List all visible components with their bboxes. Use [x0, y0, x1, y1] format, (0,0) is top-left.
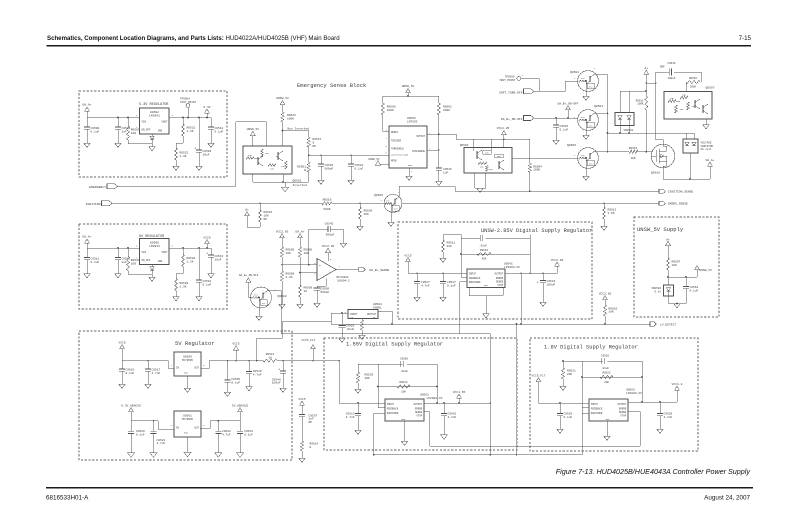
svg-text:Emergency Sense Block: Emergency Sense Block	[297, 82, 367, 89]
capacitor C0524	[348, 155, 364, 180]
ground U0505	[406, 168, 413, 180]
capacitor C0525	[436, 150, 452, 181]
ground C0519	[339, 338, 346, 342]
capacitor C0516 branch	[646, 69, 701, 84]
ground R0533	[355, 389, 362, 393]
svg-text:9.3V_ABACUS: 9.3V_ABACUS	[121, 404, 141, 407]
ground R0512	[601, 226, 608, 230]
capacitor C0511	[84, 248, 100, 274]
capacitor C0505	[314, 279, 330, 304]
ground C0505	[314, 303, 321, 307]
1.55V regulator title	[346, 342, 443, 348]
svg-text:4.7uF: 4.7uF	[346, 416, 355, 419]
power 9.3V_ABACUS	[121, 404, 141, 421]
1.8V regulator title	[544, 345, 638, 351]
svg-text:0.1uF: 0.1uF	[91, 130, 100, 133]
ground R0522	[173, 166, 180, 170]
svg-text:100: 100	[131, 263, 137, 266]
resistor R0513	[263, 353, 277, 362]
ground C0513	[208, 274, 215, 278]
transistor Q0505	[567, 144, 598, 168]
svg-text:VCC2.85: VCC2.85	[322, 245, 335, 248]
capacitor C0528	[657, 402, 673, 429]
svg-text:1.8V Digital Supply Regulator: 1.8V Digital Supply Regulator	[544, 345, 638, 351]
svg-text:20K: 20K	[365, 377, 371, 380]
junction	[308, 154, 310, 156]
power VCC5 (5V reg)	[232, 343, 239, 361]
svg-text:VCC2.85: VCC2.85	[599, 292, 612, 295]
ground C0529	[557, 429, 564, 433]
ground C0511	[84, 274, 91, 278]
wire Q0504 emitter	[583, 129, 590, 139]
capacitor C0523	[237, 421, 253, 453]
resistor R0503	[126, 118, 139, 144]
svg-text:10K: 10K	[682, 94, 687, 97]
svg-text:1.5K: 1.5K	[608, 212, 615, 215]
svg-text:10uF: 10uF	[215, 258, 222, 261]
svg-text:10K: 10K	[265, 152, 270, 155]
resistor R0526	[126, 248, 139, 274]
svg-text:THRESHOLD: THRESHOLD	[391, 148, 404, 151]
output port LV_DETECT	[650, 322, 676, 326]
transistor array Q0501	[243, 146, 292, 174]
wire rail VOUT 9V	[169, 247, 211, 249]
svg-text:MC33202: MC33202	[337, 276, 349, 279]
svg-text:VCC1.55: VCC1.55	[453, 391, 466, 394]
svg-text:LP2986-XX: LP2986-XX	[427, 397, 443, 400]
svg-text:Schematics, Component Location: Schematics, Component Location Diagrams,…	[47, 35, 340, 42]
capacitor C0513b	[346, 403, 361, 430]
capacitor C0526	[601, 354, 609, 370]
capacitor C0517b	[145, 361, 161, 384]
svg-text:0.1uF: 0.1uF	[690, 290, 699, 293]
svg-text:GND: GND	[158, 260, 163, 263]
wire output drop	[520, 273, 522, 324]
wire Q0502 emitter	[583, 90, 590, 100]
svg-text:DA_B+_ON-OFF: DA_B+_ON-OFF	[239, 274, 259, 277]
svg-text:LV_DETECT: LV_DETECT	[660, 323, 676, 326]
capacitor C0501	[115, 118, 131, 144]
capacitor C0512	[115, 248, 131, 274]
svg-text:560pF: 560pF	[325, 167, 334, 170]
ground C0517	[440, 297, 447, 301]
test point TP0500	[499, 74, 539, 92]
junction	[282, 130, 284, 132]
wire IGNITION net	[112, 202, 322, 204]
capacitor C0514	[208, 118, 224, 144]
svg-text:UNSW_5V: UNSW_5V	[276, 97, 289, 100]
svg-text:B: B	[304, 169, 306, 172]
wire drain rail	[663, 166, 710, 180]
svg-text:DISCHARGE: DISCHARGE	[412, 150, 425, 153]
svg-text:UNSW_5V: UNSW_5V	[700, 269, 713, 272]
svg-text:10K: 10K	[270, 168, 275, 171]
junction	[206, 247, 208, 249]
svg-text:UNSW_5V: UNSW_5V	[247, 128, 260, 131]
svg-text:CONTRLVOLTAGE: CONTRLVOLTAGE	[391, 154, 409, 157]
resistor R0524	[258, 202, 272, 227]
svg-text:0.1uF: 0.1uF	[355, 167, 364, 170]
svg-text:10K: 10K	[672, 264, 678, 267]
svg-text:5.1V: 5.1V	[655, 291, 662, 294]
svg-text:10K: 10K	[401, 390, 406, 393]
capacitor C0510	[196, 248, 212, 297]
wire Q0508 collector	[267, 291, 490, 334]
node A+ pullup bracket	[245, 209, 260, 227]
wire 2.85V input line	[408, 273, 467, 275]
junction	[127, 117, 129, 119]
capacitor C0518	[246, 361, 262, 387]
svg-text:1.3K: 1.3K	[180, 155, 187, 158]
capacitor C0513	[206, 248, 223, 274]
wire 1.8V feedback loop	[562, 360, 643, 407]
svg-text:SHUTDOWN: SHUTDOWN	[591, 412, 603, 415]
svg-text:0.1uF: 0.1uF	[560, 128, 569, 131]
ground C0525	[436, 181, 443, 185]
junction	[187, 117, 189, 119]
svg-text:UNSW_5V: UNSW_5V	[369, 158, 380, 161]
ground C0518	[246, 387, 253, 391]
svg-text:VIN: VIN	[142, 121, 147, 124]
svg-text:VCC1.8: VCC1.8	[672, 383, 683, 386]
power VCC1.55	[453, 391, 466, 403]
resistor R0521	[181, 118, 195, 144]
wire Q0505 emitter	[583, 167, 590, 180]
svg-text:10uF: 10uF	[203, 153, 210, 156]
svg-text:-: -	[319, 273, 321, 277]
svg-text:0.1uF: 0.1uF	[564, 416, 573, 419]
ground R0521b	[560, 386, 567, 390]
ground C0523	[237, 453, 244, 457]
transistor Q0504	[574, 105, 604, 130]
capacitor C0527	[414, 273, 430, 297]
svg-text:OUT: OUT	[194, 367, 199, 370]
svg-text:100K: 100K	[387, 109, 394, 112]
svg-text:OUT: OUT	[194, 427, 199, 430]
resistor R0515	[608, 147, 654, 160]
wire VR0501 top rail	[620, 90, 647, 92]
wire VR0501 bottom rail	[607, 126, 694, 134]
svg-text:0.1uF: 0.1uF	[215, 130, 224, 133]
resistor R0534	[477, 249, 491, 261]
transistor Q0508	[250, 287, 286, 308]
svg-text:200K: 200K	[443, 109, 450, 112]
svg-text:TRIGGER: TRIGGER	[391, 140, 402, 143]
wire 5V output rail	[201, 360, 339, 369]
2.85V regulator title	[481, 228, 592, 234]
ground C0507	[553, 140, 560, 144]
svg-text:100K: 100K	[287, 118, 294, 121]
svg-text:ERROR: ERROR	[415, 407, 423, 410]
power VCC5_FLT (1.8V)	[532, 374, 546, 403]
svg-text:7-15: 7-15	[739, 35, 752, 42]
IC U0504 regulator	[345, 303, 382, 319]
input port EMERGENCY	[89, 184, 117, 189]
resistor R0523	[281, 112, 296, 131]
ground Q0507	[703, 119, 710, 129]
resistor R0504	[528, 139, 542, 191]
svg-text:GND: GND	[408, 164, 413, 167]
ground U0506 GND	[149, 274, 156, 281]
IC U0562 LP2986	[385, 394, 443, 421]
wire VR0502 bottom	[689, 153, 691, 179]
resistor R0535	[359, 319, 366, 340]
svg-text:LP2986-XX: LP2986-XX	[626, 392, 642, 395]
capacitor C0519	[339, 312, 355, 338]
svg-text:Q0510: Q0510	[651, 171, 660, 174]
wire divider node	[176, 142, 183, 144]
junction	[206, 117, 208, 119]
svg-text:4.7uF: 4.7uF	[157, 442, 166, 445]
svg-text:TEST_POINT: TEST_POINT	[499, 79, 516, 82]
svg-text:SENSE: SENSE	[619, 411, 627, 414]
svg-text:C0542: C0542	[325, 222, 334, 225]
capacitor C0521	[151, 421, 166, 453]
power UNSW_5V (MPOS)	[369, 158, 389, 165]
svg-text:4.7uF: 4.7uF	[152, 372, 161, 375]
svg-text:VCC5: VCC5	[404, 254, 411, 257]
wire 1.55V feedback loop	[358, 364, 438, 408]
power UNSW_5V (timer)	[402, 85, 415, 96]
ground UNSW supply	[674, 304, 681, 308]
input port SOFT_TURN_OFF	[499, 89, 534, 95]
power VCC9 (5V reg)	[118, 341, 125, 360]
1.8V regulator dashed enclosure	[530, 338, 698, 451]
svg-text:+: +	[319, 264, 321, 268]
resistor R0520	[358, 202, 372, 226]
svg-text:C0506: C0506	[400, 357, 408, 360]
ground R0520	[357, 226, 364, 230]
svg-text:45K: 45K	[482, 258, 487, 261]
ground U0563	[604, 421, 611, 440]
wire UNSW_5V node	[667, 276, 697, 278]
svg-text:OUTPUT: OUTPUT	[495, 273, 504, 276]
wire U0562 sense tap	[424, 412, 430, 447]
svg-text:10K: 10K	[304, 252, 310, 255]
svg-text:100uF: 100uF	[667, 77, 675, 80]
wire rail VIN 9V	[87, 247, 140, 249]
power VCC9 (9V reg)	[203, 236, 210, 248]
wire bottom bus A	[430, 412, 640, 447]
svg-text:0.1uF: 0.1uF	[126, 372, 135, 375]
svg-text:IN: IN	[176, 427, 180, 430]
svg-text:C0516: C0516	[667, 62, 675, 65]
capacitor C0516b	[119, 361, 135, 384]
svg-text:MC78M05: MC78M05	[182, 359, 193, 362]
svg-text:20K: 20K	[604, 381, 609, 384]
svg-text:OUTPUT: OUTPUT	[414, 403, 423, 406]
resistor R0506	[298, 247, 312, 273]
svg-text:LM7555: LM7555	[407, 120, 418, 123]
IC U0541 LP2986	[467, 263, 520, 288]
ground C0522	[215, 453, 222, 457]
ground U0541	[469, 288, 503, 318]
svg-text:VCC2.85: VCC2.85	[551, 259, 564, 262]
svg-text:FEEDBACK: FEEDBACK	[469, 277, 481, 280]
svg-text:.01uF: .01uF	[601, 367, 609, 370]
capacitor C0520	[128, 421, 145, 453]
svg-text:SENSE: SENSE	[415, 411, 423, 414]
wire op-amp plus input	[282, 264, 317, 266]
junction	[198, 247, 200, 249]
svg-text:INPUT: INPUT	[591, 403, 599, 406]
svg-text:ON_OFF: ON_OFF	[142, 129, 152, 132]
svg-text:EMERGENCY: EMERGENCY	[89, 185, 106, 189]
wire DISCHARGE	[427, 149, 440, 151]
svg-text:45K: 45K	[364, 213, 370, 216]
resistor R0508	[280, 264, 294, 304]
capacitor C0544	[272, 361, 286, 388]
svg-text:20K: 20K	[567, 373, 573, 376]
svg-text:1uF: 1uF	[122, 261, 128, 264]
ground U0560	[184, 376, 191, 392]
wire shutdown net 1.8V	[582, 408, 589, 455]
svg-text:100K: 100K	[533, 169, 540, 172]
resistor R0536	[686, 72, 701, 92]
IC U0505 LM7555	[385, 117, 431, 173]
wire to Q0510 source	[656, 83, 664, 144]
ground C0528	[657, 429, 664, 433]
ground C0516b	[119, 384, 126, 388]
svg-text:10K: 10K	[670, 97, 675, 100]
ground R0511	[440, 258, 447, 262]
svg-text:INPUT: INPUT	[469, 273, 477, 276]
ground R0514	[299, 458, 306, 462]
svg-text:10K: 10K	[286, 252, 292, 255]
junction	[117, 247, 119, 249]
ground C0520	[128, 453, 135, 457]
capacitor C0522	[215, 421, 231, 453]
power VCC1.8	[672, 383, 683, 402]
svg-text:VCC2.85: VCC2.85	[497, 127, 510, 130]
power UNSW_5V (R0523)	[276, 97, 289, 112]
svg-text:Q0505: Q0505	[567, 144, 576, 147]
svg-text:MC78M05: MC78M05	[182, 418, 193, 421]
power VCC2.85 (op-amp)	[322, 245, 335, 261]
IC U0563 LP2986	[589, 389, 642, 421]
wire op-amp minus input	[300, 272, 317, 274]
ground C0544	[280, 388, 287, 392]
ground R0509	[297, 304, 304, 308]
resistor R0510	[603, 305, 617, 324]
svg-text:10K: 10K	[609, 311, 615, 314]
svg-text:Q0507: Q0507	[706, 87, 715, 90]
svg-text:1uF: 1uF	[122, 130, 128, 133]
wire VCC5_FLT riser jog	[257, 321, 331, 360]
ground R0529	[173, 297, 180, 301]
wire shutdown net 1.55V	[373, 413, 385, 456]
svg-text:LM2941: LM2941	[149, 245, 160, 248]
capacitor C0529	[557, 403, 573, 429]
svg-text:3.3K: 3.3K	[286, 276, 293, 279]
svg-text:UNSW-2.85V Digital Supply Regu: UNSW-2.85V Digital Supply Regulator	[481, 228, 592, 234]
resistor R0507	[666, 258, 680, 285]
capacitor C0503	[194, 118, 211, 167]
svg-text:22K: 22K	[447, 245, 453, 248]
output port DA_B+_SENSE	[359, 267, 390, 271]
ground C0524	[348, 180, 355, 184]
svg-text:100: 100	[131, 132, 137, 135]
svg-text:300K: 300K	[690, 86, 697, 89]
svg-text:ERROR: ERROR	[619, 407, 627, 410]
transistor Q0506	[374, 191, 402, 212]
ground R0508	[279, 304, 286, 308]
svg-text:10: 10	[268, 357, 272, 360]
resistor R0522b	[600, 372, 613, 384]
svg-text:UNSW_5V: UNSW_5V	[402, 85, 415, 88]
svg-text:0.1uF: 0.1uF	[91, 261, 100, 264]
resistor R0514	[300, 441, 318, 458]
svg-text:100uF: 100uF	[547, 283, 556, 286]
resistor R0522	[174, 143, 188, 166]
resistor R0509	[298, 272, 312, 304]
capacitor C0507	[553, 118, 569, 140]
svg-text:1.3K: 1.3K	[180, 286, 187, 289]
svg-text:.01uF: .01uF	[400, 370, 408, 373]
svg-text:Q0504: Q0504	[594, 105, 603, 108]
power VCC2.85 (R0510)	[599, 292, 612, 305]
svg-text:R0512: R0512	[399, 381, 407, 384]
svg-text:DA_A+: DA_A+	[295, 230, 304, 233]
wire 1.8V output line	[628, 401, 677, 403]
wire 5V input rail	[122, 360, 174, 369]
svg-text:4.7uF: 4.7uF	[664, 416, 673, 419]
svg-text:VOUT: VOUT	[161, 251, 168, 254]
capacitor C0542b	[441, 403, 457, 435]
diode pack VR0501	[615, 91, 634, 132]
svg-text:A+: A+	[666, 238, 670, 241]
wire RESET	[383, 130, 389, 132]
ground Q0503	[475, 173, 486, 192]
svg-text:GND: GND	[184, 432, 189, 435]
Emergency Sense Block title	[297, 82, 367, 89]
svg-text:VCC9: VCC9	[118, 341, 125, 344]
ground C0542b	[441, 435, 448, 439]
wire Q0503 output	[512, 157, 578, 159]
svg-text:4.7uF: 4.7uF	[448, 416, 457, 419]
svg-text:DA_B+_ON-OFF: DA_B+_ON-OFF	[558, 102, 579, 105]
power VCC5 (2.85V reg)	[404, 254, 411, 273]
IC U0502 LM2941	[136, 108, 174, 140]
svg-text:VOUT: VOUT	[161, 121, 168, 124]
svg-text:VCC5_FLT: VCC5_FLT	[532, 374, 546, 377]
junction	[198, 117, 200, 119]
wire timer OUTPUT	[427, 133, 456, 139]
svg-text:VCC5_FLT: VCC5_FLT	[302, 339, 316, 342]
power A+ (UNSW supply)	[666, 238, 671, 258]
wire abacus output rail	[200, 420, 240, 429]
svg-text:SOFT_TURN_OFF: SOFT_TURN_OFF	[499, 92, 523, 95]
ground C0512	[115, 274, 122, 278]
svg-text:LP2986-XX: LP2986-XX	[504, 266, 520, 269]
wire non-inverted node	[283, 131, 309, 147]
capacitor C0543	[537, 273, 556, 302]
svg-text:August 24, 2007: August 24, 2007	[704, 495, 750, 502]
wire U0541 shutdown riser	[460, 282, 468, 334]
wire soft turn off	[534, 81, 578, 91]
resistor R0528	[181, 248, 195, 274]
wire timer supply rail	[383, 95, 439, 97]
svg-text:0.1uF: 0.1uF	[203, 283, 212, 286]
wire R0526 to GND pin	[128, 265, 152, 275]
wire Q0502 collector	[594, 73, 608, 75]
svg-text:5.3V: 5.3V	[203, 106, 210, 109]
svg-text:0: 0	[310, 446, 312, 449]
resistor R0529	[174, 274, 188, 297]
svg-text:OUTPUT: OUTPUT	[416, 135, 425, 138]
svg-text:LM2941: LM2941	[149, 114, 160, 117]
wire feedback stub	[461, 277, 467, 279]
